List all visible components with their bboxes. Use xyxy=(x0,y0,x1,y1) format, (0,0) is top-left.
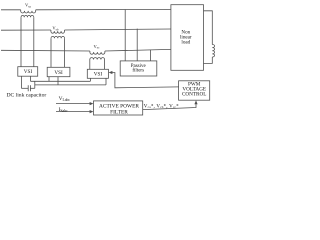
transformer T3 secondary winding xyxy=(90,58,105,60)
arrowhead into VSI3 xyxy=(109,71,113,74)
svg-text:DC link capacitor: DC link capacitor xyxy=(7,92,47,98)
wire tap phase A to passive filter xyxy=(124,10,126,61)
non linear load box xyxy=(171,5,204,71)
svg-text:filters: filters xyxy=(132,69,144,74)
wire tap phase B to passive filter xyxy=(136,29,138,61)
arrowhead V_Labc into APF xyxy=(90,102,94,105)
wire VSI2 DC pin right xyxy=(57,77,59,85)
wire phase line C left segment xyxy=(1,49,90,52)
VSI converter 2 box xyxy=(47,67,70,76)
transformer T2 secondary winding xyxy=(51,36,65,38)
wire load loop bottom xyxy=(204,57,213,63)
wire VSI1 DC positive pin xyxy=(30,76,32,81)
svg-text:load: load xyxy=(181,39,190,45)
wire phase line A left segment xyxy=(1,9,21,11)
wire PWM control to VSI3 xyxy=(112,73,179,88)
wire DC bus rail upper xyxy=(31,80,91,82)
VSI converter 3 box xyxy=(87,69,108,78)
wire riser joining rails xyxy=(34,81,36,88)
passive filters box xyxy=(120,61,157,76)
wire phase line C right segment xyxy=(105,49,171,51)
transformer T2 primary winding xyxy=(51,30,65,33)
arrowhead up into PWM control xyxy=(194,100,197,104)
wire VSI1 DC negative pin xyxy=(20,76,22,88)
svg-text:Vsa: Vsa xyxy=(25,2,31,8)
svg-text:VSI: VSI xyxy=(94,71,103,77)
svg-text:ACTIVE POWER: ACTIVE POWER xyxy=(99,103,139,109)
wire VSI3 DC pin right xyxy=(105,78,107,85)
active power filter box xyxy=(94,101,143,115)
wire T1 secondary lead left xyxy=(20,17,22,66)
svg-text:VSI: VSI xyxy=(24,69,33,75)
inductor L load xyxy=(212,45,214,57)
wire phase line B right segment xyxy=(65,29,171,30)
VSI converter 1 box xyxy=(18,67,38,77)
wire VSI3 DC pin left xyxy=(89,78,91,81)
svg-text:Vca*, Vcb*, Vcc*: Vca*, Vcb*, Vcc* xyxy=(144,104,179,109)
wire VSI2 DC pin left xyxy=(48,77,50,82)
arrowhead I_Sabc into APF xyxy=(90,110,94,113)
wire DC bus rail lower xyxy=(35,84,106,86)
wire phase line A right segment xyxy=(36,8,171,10)
svg-text:CONTROL: CONTROL xyxy=(182,91,207,97)
svg-text:ISabc: ISabc xyxy=(59,107,68,113)
wire load loop top xyxy=(204,11,213,45)
wire tap phase C to passive filter xyxy=(150,50,152,61)
svg-text:FILTER: FILTER xyxy=(110,110,128,116)
svg-text:VSI: VSI xyxy=(54,70,63,76)
wire T2 secondary lead right xyxy=(64,38,66,67)
wire input V_Labc xyxy=(56,103,92,105)
wire APF output to PWM control xyxy=(143,102,196,109)
wire phase line B left segment xyxy=(1,29,51,31)
transformer T3 primary winding xyxy=(90,51,105,54)
transformer T1 primary winding xyxy=(21,10,36,13)
wire input I_Sabc xyxy=(56,111,92,113)
wire capacitor right to riser xyxy=(30,87,34,89)
wire T3 secondary lead left xyxy=(89,60,91,70)
wire T2 secondary lead left xyxy=(50,38,52,67)
transformer T1 secondary winding xyxy=(21,15,34,17)
wire T3 secondary lead right xyxy=(104,60,106,70)
svg-text:Vsb: Vsb xyxy=(52,26,58,32)
svg-text:VLabc: VLabc xyxy=(59,96,71,102)
capacitor C DC link plates xyxy=(28,85,30,91)
PWM voltage control box xyxy=(179,81,210,100)
svg-text:Vsc: Vsc xyxy=(94,44,100,50)
wire DC link to capacitor left xyxy=(21,87,28,89)
wire T1 secondary lead right xyxy=(33,17,35,66)
